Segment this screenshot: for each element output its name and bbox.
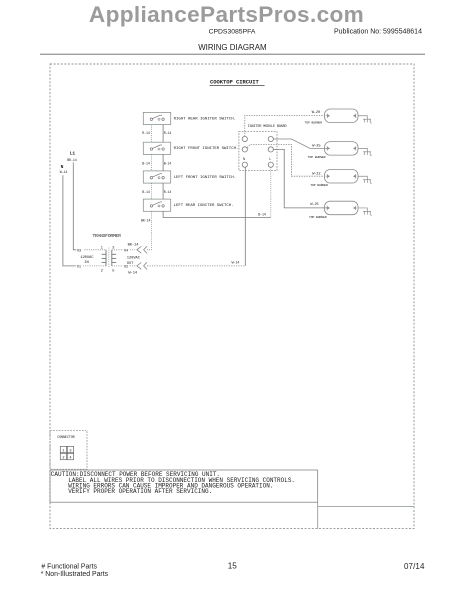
svg-text:BK-14: BK-14 [67, 158, 77, 162]
svg-text:O2: O2 [124, 266, 128, 270]
terminal 2 [268, 136, 273, 141]
wire left column S1-S2 [150, 125, 152, 143]
svg-text:WIRING DIAGRAM: WIRING DIAGRAM [198, 43, 266, 52]
wire left column S3-S4 [150, 183, 152, 199]
wire W-25 net: terminal 4 right and down to burner 4 [273, 149, 327, 208]
wire N to transformer primary bottom (O1) [63, 175, 76, 266]
svg-text:LEFT REAR IGNITER SWITCH.: LEFT REAR IGNITER SWITCH. [174, 204, 234, 208]
core [108, 248, 110, 268]
transformer T1 [77, 233, 141, 276]
svg-text:R-14: R-14 [142, 131, 150, 135]
caution box [50, 470, 318, 502]
svg-text:LEFT FRONT IGNITER SWITCH.: LEFT FRONT IGNITER SWITCH. [174, 176, 236, 180]
circuit title COOKTOP CIRCUIT [210, 79, 265, 86]
wire secondary bottom to O2 [112, 265, 123, 267]
wire right column S4 down [162, 211, 164, 217]
wire left column S2-S3 [150, 154, 152, 171]
svg-text:TOP BURNER: TOP BURNER [309, 215, 327, 219]
svg-text:W-25: W-25 [310, 203, 318, 207]
title block divider horizontal [318, 506, 414, 508]
svg-text:Publication No: 5995548614: Publication No: 5995548614 [334, 29, 422, 36]
legend cell 4 [67, 453, 73, 459]
svg-text:W-14: W-14 [232, 260, 240, 264]
switch S4 LEFT REAR IGNITER SWITCH [143, 199, 233, 211]
svg-text:W-22: W-22 [312, 172, 320, 176]
svg-text:CPDS3085PFA: CPDS3085PFA [209, 28, 256, 35]
svg-text:2: 2 [101, 270, 103, 274]
svg-text:IGNITER MODULE BOARD: IGNITER MODULE BOARD [248, 125, 287, 129]
svg-text:W-14: W-14 [60, 170, 68, 174]
wire W-14 run to module board N riser [147, 265, 245, 267]
terminal 3 [242, 147, 247, 152]
svg-text:1: 1 [62, 449, 64, 453]
svg-text:RIGHT FRONT IGNITER SWITCH.: RIGHT FRONT IGNITER SWITCH. [174, 147, 239, 151]
svg-text:2: 2 [62, 456, 64, 460]
svg-text:R-14: R-14 [164, 131, 172, 135]
wire right column S3-S4 [162, 183, 164, 199]
svg-text:5: 5 [112, 270, 114, 274]
top burner 3 [310, 170, 358, 187]
svg-text:B-14: B-14 [142, 190, 150, 194]
wire module L terminal down to switched line [270, 167, 272, 217]
switch S2 RIGHT FRONT IGNITER SWITCH [143, 142, 238, 154]
wire right column S1-S2 [162, 125, 164, 143]
title block divider vertical [317, 502, 319, 528]
svg-text:OUT: OUT [127, 262, 134, 266]
legend cell 3 [67, 446, 73, 452]
wire W-22 net: terminal 3 over and down to burner 3 [247, 144, 327, 176]
svg-text:R-14: R-14 [164, 190, 172, 194]
svg-text:BK-14: BK-14 [128, 243, 140, 247]
svg-text:07/14: 07/14 [404, 562, 425, 571]
svg-text:1: 1 [101, 246, 103, 250]
spark electrode 1 [358, 116, 372, 124]
svg-text:* Non-Illustrated Parts: * Non-Illustrated Parts [41, 571, 109, 578]
switch S3 LEFT FRONT IGNITER SWITCH [143, 171, 236, 183]
secondary winding [112, 250, 116, 266]
terminal N [242, 162, 247, 167]
diagram outer border [50, 64, 414, 529]
svg-text:W-14: W-14 [128, 272, 138, 276]
svg-text:TOP BURNER: TOP BURNER [310, 183, 328, 187]
top burner 1 [305, 109, 359, 125]
svg-text:O1: O1 [77, 265, 81, 269]
svg-text:120VAC: 120VAC [80, 256, 94, 260]
wire W-20 net: terminal 1 up and right to burner 1 [245, 115, 327, 136]
svg-text:TRANSFORMER: TRANSFORMER [93, 233, 122, 239]
wire O1 dashed lead [83, 265, 106, 267]
svg-text:RIGHT REAR IGNITER SWITCH.: RIGHT REAR IGNITER SWITCH. [174, 117, 236, 121]
wire secondary top to O4 [112, 249, 123, 251]
svg-text:B-14: B-14 [258, 212, 266, 216]
svg-text:B-14: B-14 [142, 161, 150, 165]
svg-text:4: 4 [69, 456, 71, 460]
connector pair on BK-14 wire [130, 246, 147, 253]
svg-text:# Functional Parts: # Functional Parts [41, 563, 97, 570]
connector legend box [50, 431, 87, 470]
switch S1 RIGHT REAR IGNITER SWITCH [143, 112, 236, 124]
terminal L [268, 162, 273, 167]
top burner 2 [308, 142, 358, 159]
wire switched output to module board L [163, 217, 271, 219]
spark electrode 3 [358, 176, 372, 184]
svg-text:L: L [269, 158, 271, 162]
svg-text:IN: IN [84, 261, 88, 265]
header rule [40, 53, 425, 55]
svg-text:O3: O3 [77, 249, 81, 253]
igniter module board U1 [239, 125, 287, 170]
legend cell 2 [60, 453, 66, 459]
svg-text:120VAC: 120VAC [127, 256, 141, 260]
terminal 1 [242, 136, 247, 141]
wire left column S4 down to transformer BK-14 feed [147, 211, 151, 250]
connector pair on W-14 wire [130, 262, 147, 269]
spark electrode 4 [358, 208, 372, 216]
svg-text:L1: L1 [70, 150, 76, 156]
wire W-25 net: terminal 2 right diagonal to burner 2 [273, 139, 327, 148]
legend cell 1 [60, 446, 66, 452]
svg-text:BK-14: BK-14 [141, 218, 151, 222]
svg-text:N: N [61, 164, 64, 170]
svg-text:VERIFY PROPER OPERATION AFTER: VERIFY PROPER OPERATION AFTER SERVICING. [68, 488, 212, 495]
top burner 4 [309, 201, 358, 219]
svg-text:O4: O4 [124, 249, 128, 253]
wire O3 dashed lead [85, 249, 107, 251]
svg-text:15: 15 [228, 561, 238, 570]
svg-text:CONNECTOR: CONNECTOR [57, 436, 74, 440]
svg-text:W-25: W-25 [312, 144, 320, 148]
svg-text:B-14: B-14 [164, 161, 172, 165]
wire L1 to transformer primary top (O3) [73, 163, 76, 250]
svg-text:TOP BURNER: TOP BURNER [305, 121, 323, 125]
terminal 4 [268, 147, 273, 152]
svg-text:TOP BURNER: TOP BURNER [308, 155, 326, 159]
svg-text:COOKTOP CIRCUIT: COOKTOP CIRCUIT [210, 79, 260, 86]
svg-text:AppliancePartsPros.com: AppliancePartsPros.com [89, 2, 364, 27]
wire right column S2-S3 [162, 154, 164, 171]
svg-text:3: 3 [69, 449, 71, 453]
spark electrode 2 [358, 148, 372, 156]
svg-text:W-20: W-20 [312, 111, 320, 115]
svg-text:N: N [243, 158, 245, 162]
primary winding [102, 250, 106, 266]
